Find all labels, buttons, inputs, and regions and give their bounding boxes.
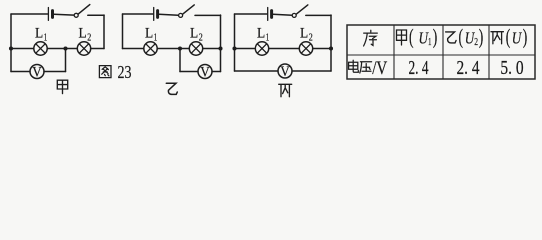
switch S3 blade [296,5,308,14]
wire: left vertical to lamp L1 (bing) [235,48,256,50]
lamp L2 (bing) [299,42,312,55]
svg-text:V: V [200,64,210,80]
table header: yi glyph [446,32,457,43]
svg-text:(: ( [459,25,464,49]
node: junction on right wire (yi) [218,46,222,50]
svg-text:): ) [479,25,484,49]
svg-text:23: 23 [118,62,132,82]
wire: left vertical to lamp L1 [11,48,34,50]
lamp L1 (yi) [144,42,157,55]
wire: top-left horizontal, circuit bing [235,13,267,15]
table header: jia glyph [397,30,407,45]
svg-text:1: 1 [428,36,432,48]
table outer border [347,25,535,79]
battery B3 long plate [267,8,269,21]
node: junction between L1 and L2 (jia) [63,46,67,50]
wire: switch S1 to top-right corner [88,14,104,16]
wire: left vertical, circuit yi [122,14,124,49]
node: junction right (bing) [329,46,333,50]
wire: voltmeter to right vertical (yi) [212,71,221,73]
wire: right vertical, circuit bing [330,15,332,71]
switch S1 pivot [74,13,78,17]
svg-text:(: ( [506,25,511,49]
wire: battery B2 to switch S2 [159,13,178,16]
table header: bing glyph [491,32,503,44]
wire: lamp L2 to right vertical [91,48,104,50]
voltmeter V (jia) [30,65,44,79]
battery B2 short thick plate [156,11,159,18]
svg-text:2: 2 [199,32,203,43]
table vertical line 3 [488,25,490,79]
svg-text:L: L [190,26,198,42]
voltmeter V (yi) [198,65,212,79]
svg-text:2. 4: 2. 4 [409,58,429,79]
switch S2 pivot [179,13,183,17]
table vertical line 2 [442,25,444,79]
label yi (circuit 2 name) [166,83,177,94]
table header: xu glyph [364,30,378,46]
svg-text:L: L [79,26,87,42]
svg-text:2. 4: 2. 4 [457,58,480,79]
node: junction between L1 and L2 (yi) [178,46,182,50]
svg-text:(: ( [409,25,414,49]
svg-text:V: V [280,64,290,80]
svg-text:2: 2 [309,32,313,43]
lamp L2 (jia) [77,42,90,55]
wire: junction to voltmeter (yi) [180,71,198,73]
table cell: dian glyph [349,60,359,72]
svg-text:2: 2 [87,32,91,43]
lamp L1 (bing) [255,42,268,55]
svg-text:): ) [433,25,438,49]
wire: left vertical, circuit jia [10,14,12,72]
wire: vertical up to junction (jia) [65,49,67,72]
svg-text:L: L [145,26,153,42]
wire: lamp L2 to right vertical (bing) [313,48,331,50]
label jia (circuit 1 name) [57,80,67,93]
wire: vertical down from middle junction (yi) [179,49,181,72]
svg-text:): ) [523,25,528,49]
svg-text:1: 1 [44,32,48,43]
switch S1 blade [78,5,90,15]
svg-text:V: V [32,64,42,80]
wire: switch S3 to top-right corner [306,14,331,16]
svg-text:5. 0: 5. 0 [500,58,523,79]
battery B1 long plate [47,8,49,21]
label tu (figure) glyph [99,66,111,78]
table vertical line 1 [393,25,395,79]
wire: lamp L1 to lamp L2 (bing) [269,48,300,50]
svg-text:L: L [35,26,43,42]
wire: right vertical, circuit jia [103,15,105,49]
svg-text:2: 2 [474,36,478,48]
wire: right vertical lower, circuit yi [220,49,222,72]
label bing (circuit 3 name) [279,84,292,96]
wire: battery B1 to switch S1 [54,13,74,16]
wire: left vertical to lamp L1 (yi) [123,48,144,50]
table cell: ya glyph [360,62,372,73]
svg-text:L: L [257,26,265,42]
wire: top-left horizontal, circuit jia [11,13,48,15]
node: junction left (bing) [232,46,236,50]
wire: bottom left to voltmeter [11,71,30,73]
wire: bottom left horizontal (bing) [235,70,279,72]
wire: lamp L1 to lamp L2 (yi) [157,48,189,50]
wire: voltmeter to bottom right (bing) [292,70,331,72]
wire: right vertical upper, circuit yi [220,15,222,49]
battery B3 short thick plate [270,11,273,18]
svg-text:1: 1 [266,32,270,43]
wire: battery B3 to switch S3 [273,13,292,16]
svg-text:/V: /V [372,59,388,79]
battery B1 short thick plate [51,11,54,18]
wire: switch S2 to top-right corner [195,14,221,16]
wire: lamp L2 to right vertical (yi) [203,48,221,50]
switch S3 pivot [292,13,296,17]
node: junction on left wire (jia) [9,46,13,50]
table horizontal divider [347,54,535,56]
voltmeter V (bing) [278,64,292,78]
battery B2 long plate [153,8,155,21]
lamp L2 (yi) [189,42,202,55]
svg-text:1: 1 [154,32,158,43]
wire: top-left horizontal, circuit yi [123,13,153,15]
svg-text:L: L [300,26,308,42]
wire: left vertical, circuit bing [234,14,236,71]
wire: lamp L1 to lamp L2 [47,48,77,50]
switch S2 blade [183,5,195,14]
svg-text:U: U [512,28,523,47]
lamp L1 (jia) [34,42,47,55]
wire: voltmeter to middle junction [44,71,66,73]
